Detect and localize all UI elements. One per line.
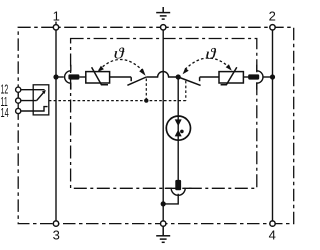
terminal 4 circle <box>270 221 275 226</box>
left arc arrowhead at varistor <box>97 66 104 72</box>
left thermal disconnect switch <box>127 77 146 85</box>
gas discharge tube F1 <box>166 116 190 140</box>
varistor RV2 <box>219 67 243 84</box>
top earth symbol <box>156 7 170 19</box>
bottom earth symbol <box>156 226 170 242</box>
bottom plug pin <box>175 180 181 190</box>
right thermal linkage dashed arc <box>185 58 230 70</box>
svg-text:2: 2 <box>269 9 276 24</box>
varistor RV1 <box>86 67 110 84</box>
right arc arrowhead at varistor <box>226 64 232 70</box>
svg-text:14: 14 <box>1 106 9 120</box>
GDT gas dot <box>180 130 184 134</box>
bottom earth terminal circle <box>161 221 166 226</box>
terminal 2 circle <box>270 25 275 30</box>
linkage junction dot <box>144 98 148 102</box>
svg-text:3: 3 <box>53 228 60 243</box>
wire: junction node A to left socket <box>56 76 64 78</box>
wire: right socket to junction node C <box>262 76 272 78</box>
terminal 12 circle <box>16 87 21 92</box>
right arc arrowhead at switch <box>183 68 189 75</box>
junction node D on earth line <box>161 201 166 206</box>
terminal 1 circle <box>53 25 58 30</box>
wire: terminal 2 to terminal 4 vertical line <box>272 30 274 221</box>
contact box K1 (remote signalling changeover contact) <box>21 85 49 115</box>
terminal 11 circle <box>16 98 21 103</box>
right thermal disconnect switch <box>178 77 200 85</box>
junction node A on line 1-3 <box>53 74 58 79</box>
wire: terminal 12 to fixed contact <box>21 89 45 91</box>
svg-text:4: 4 <box>269 228 276 243</box>
terminal 3 circle <box>53 221 58 226</box>
wire: earth line from top earth terminal to bottom earth terminal <box>162 30 164 221</box>
wire: left pin to varistor RV1 <box>79 76 85 78</box>
wire: left switch pivot to hop over earth line, to node B <box>146 72 178 78</box>
wire: varistor RV1 to left thermal switch contact <box>110 76 132 78</box>
left socket arc on module edge <box>65 65 71 90</box>
wire: terminal 1 to terminal 3 vertical line <box>55 30 57 221</box>
right plug pin <box>248 74 259 79</box>
wire segment joining terminals 12 11 14 on border <box>17 87 19 114</box>
wire: terminal 14 to its contact hook <box>21 107 48 111</box>
wire: stub above terminal 1 <box>55 22 57 25</box>
top earth terminal circle <box>161 25 166 30</box>
linkage horizontal run <box>49 100 186 102</box>
wire: gas discharge tube F1 down to bottom pin <box>177 140 179 181</box>
wire: below bottom socket, down and left to earth line junction D <box>163 194 178 204</box>
left thermal linkage dashed arc <box>99 59 144 72</box>
linkage riser to left switch <box>145 79 147 101</box>
wire: node B down to gas discharge tube F1 <box>177 77 179 117</box>
terminal 14 circle <box>16 108 21 113</box>
left plug pin <box>68 74 79 79</box>
contact arm arrowhead <box>42 90 46 94</box>
wire: terminal 11 to movable arm pivot <box>21 100 37 102</box>
bottom socket arc on module edge <box>165 188 192 195</box>
right socket arc on module edge <box>257 65 263 90</box>
wire: right switch fixed contact to varistor RV2 <box>200 76 219 78</box>
mechanical linkage dashed line from contact box to switches <box>49 79 186 101</box>
theta label left <box>115 48 125 59</box>
junction node B at GDT top <box>176 74 181 79</box>
left arc arrowhead at switch <box>139 68 145 75</box>
svg-text:1: 1 <box>53 9 60 24</box>
wire: varistor RV2 to right pin <box>243 76 249 78</box>
linkage riser to right switch <box>185 81 187 101</box>
GDT lower arrowhead <box>175 130 182 137</box>
outer enclosure dash-dot border <box>18 27 294 223</box>
GDT upper arrowhead <box>175 119 182 126</box>
junction node C on line 2-4 <box>270 74 275 79</box>
contact arm 11-12 <box>37 92 44 101</box>
inner protection-module dash-dot box <box>71 39 257 189</box>
theta label right <box>206 48 216 59</box>
